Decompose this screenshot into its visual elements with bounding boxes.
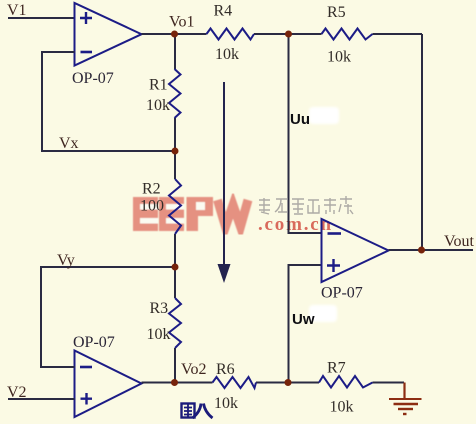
svg-text:R1: R1 [149, 77, 168, 94]
svg-text:OP-07: OP-07 [73, 334, 115, 351]
svg-text:10k: 10k [214, 395, 238, 412]
current arrow [218, 82, 231, 283]
resistor R5 [322, 29, 373, 40]
wire Uu rail [289, 34, 322, 233]
svg-text:10k: 10k [215, 46, 239, 63]
junction node Vx [172, 148, 179, 155]
junction node top [285, 31, 292, 38]
svg-text:Vout: Vout [444, 233, 474, 250]
svg-text:10k: 10k [327, 49, 351, 66]
wire U1 output [142, 33, 176, 35]
wire bottom rail [175, 382, 404, 384]
junction node Vout [418, 247, 425, 254]
caption figure eight [182, 404, 213, 419]
resistor R7 [319, 376, 373, 388]
wire U2 feedback to Vy [41, 267, 175, 367]
svg-text:R7: R7 [327, 360, 346, 377]
svg-text:Vo1: Vo1 [169, 14, 195, 31]
ground [389, 383, 422, 415]
svg-text:10k: 10k [146, 97, 170, 114]
wire V1 input [8, 17, 75, 19]
white patch near Uu [309, 107, 339, 124]
svg-text:Uw: Uw [292, 311, 315, 328]
wire U3 output [389, 249, 474, 251]
svg-text:100: 100 [140, 198, 164, 215]
resistor R4 [207, 29, 255, 40]
junction node bottom [285, 379, 292, 386]
resistor R1 [169, 69, 181, 118]
junction node Vo1 [171, 31, 178, 38]
wire middle rail x=175 [174, 34, 176, 383]
resistor R3 [169, 298, 181, 348]
op-amp U3 [322, 219, 389, 282]
wire U1 feedback to Vx [42, 52, 175, 151]
svg-text:R6: R6 [216, 361, 235, 378]
svg-text:V2: V2 [7, 384, 27, 401]
svg-text:10k: 10k [330, 399, 354, 416]
svg-text:Vy: Vy [57, 252, 75, 269]
wire Uw rail [289, 265, 322, 383]
svg-text:10k: 10k [147, 326, 171, 343]
svg-text:V1: V1 [7, 2, 27, 19]
wire U2 output [142, 382, 176, 384]
op-amp U1 [75, 3, 142, 66]
junction node Vo2 [171, 379, 178, 386]
op-amp U2 [75, 351, 142, 418]
svg-text:R4: R4 [214, 3, 233, 20]
svg-text:OP-07: OP-07 [72, 70, 114, 87]
white patch near Uw [309, 305, 337, 322]
resistor R6 [213, 377, 257, 388]
svg-text:Vo2: Vo2 [181, 361, 207, 378]
svg-text:OP-07: OP-07 [321, 285, 363, 302]
svg-text:R5: R5 [327, 4, 346, 21]
svg-text:R3: R3 [150, 300, 169, 317]
junction node Vy [172, 264, 179, 271]
resistor R2 [169, 179, 181, 234]
watermark chinese gray text [259, 196, 353, 214]
watermark EEPW logo [133, 197, 248, 231]
svg-text:Uu: Uu [290, 111, 310, 128]
wire V2 input [8, 398, 75, 400]
svg-text:Vx: Vx [59, 135, 79, 152]
svg-text:R2: R2 [142, 181, 161, 198]
wire top rail [175, 34, 422, 250]
